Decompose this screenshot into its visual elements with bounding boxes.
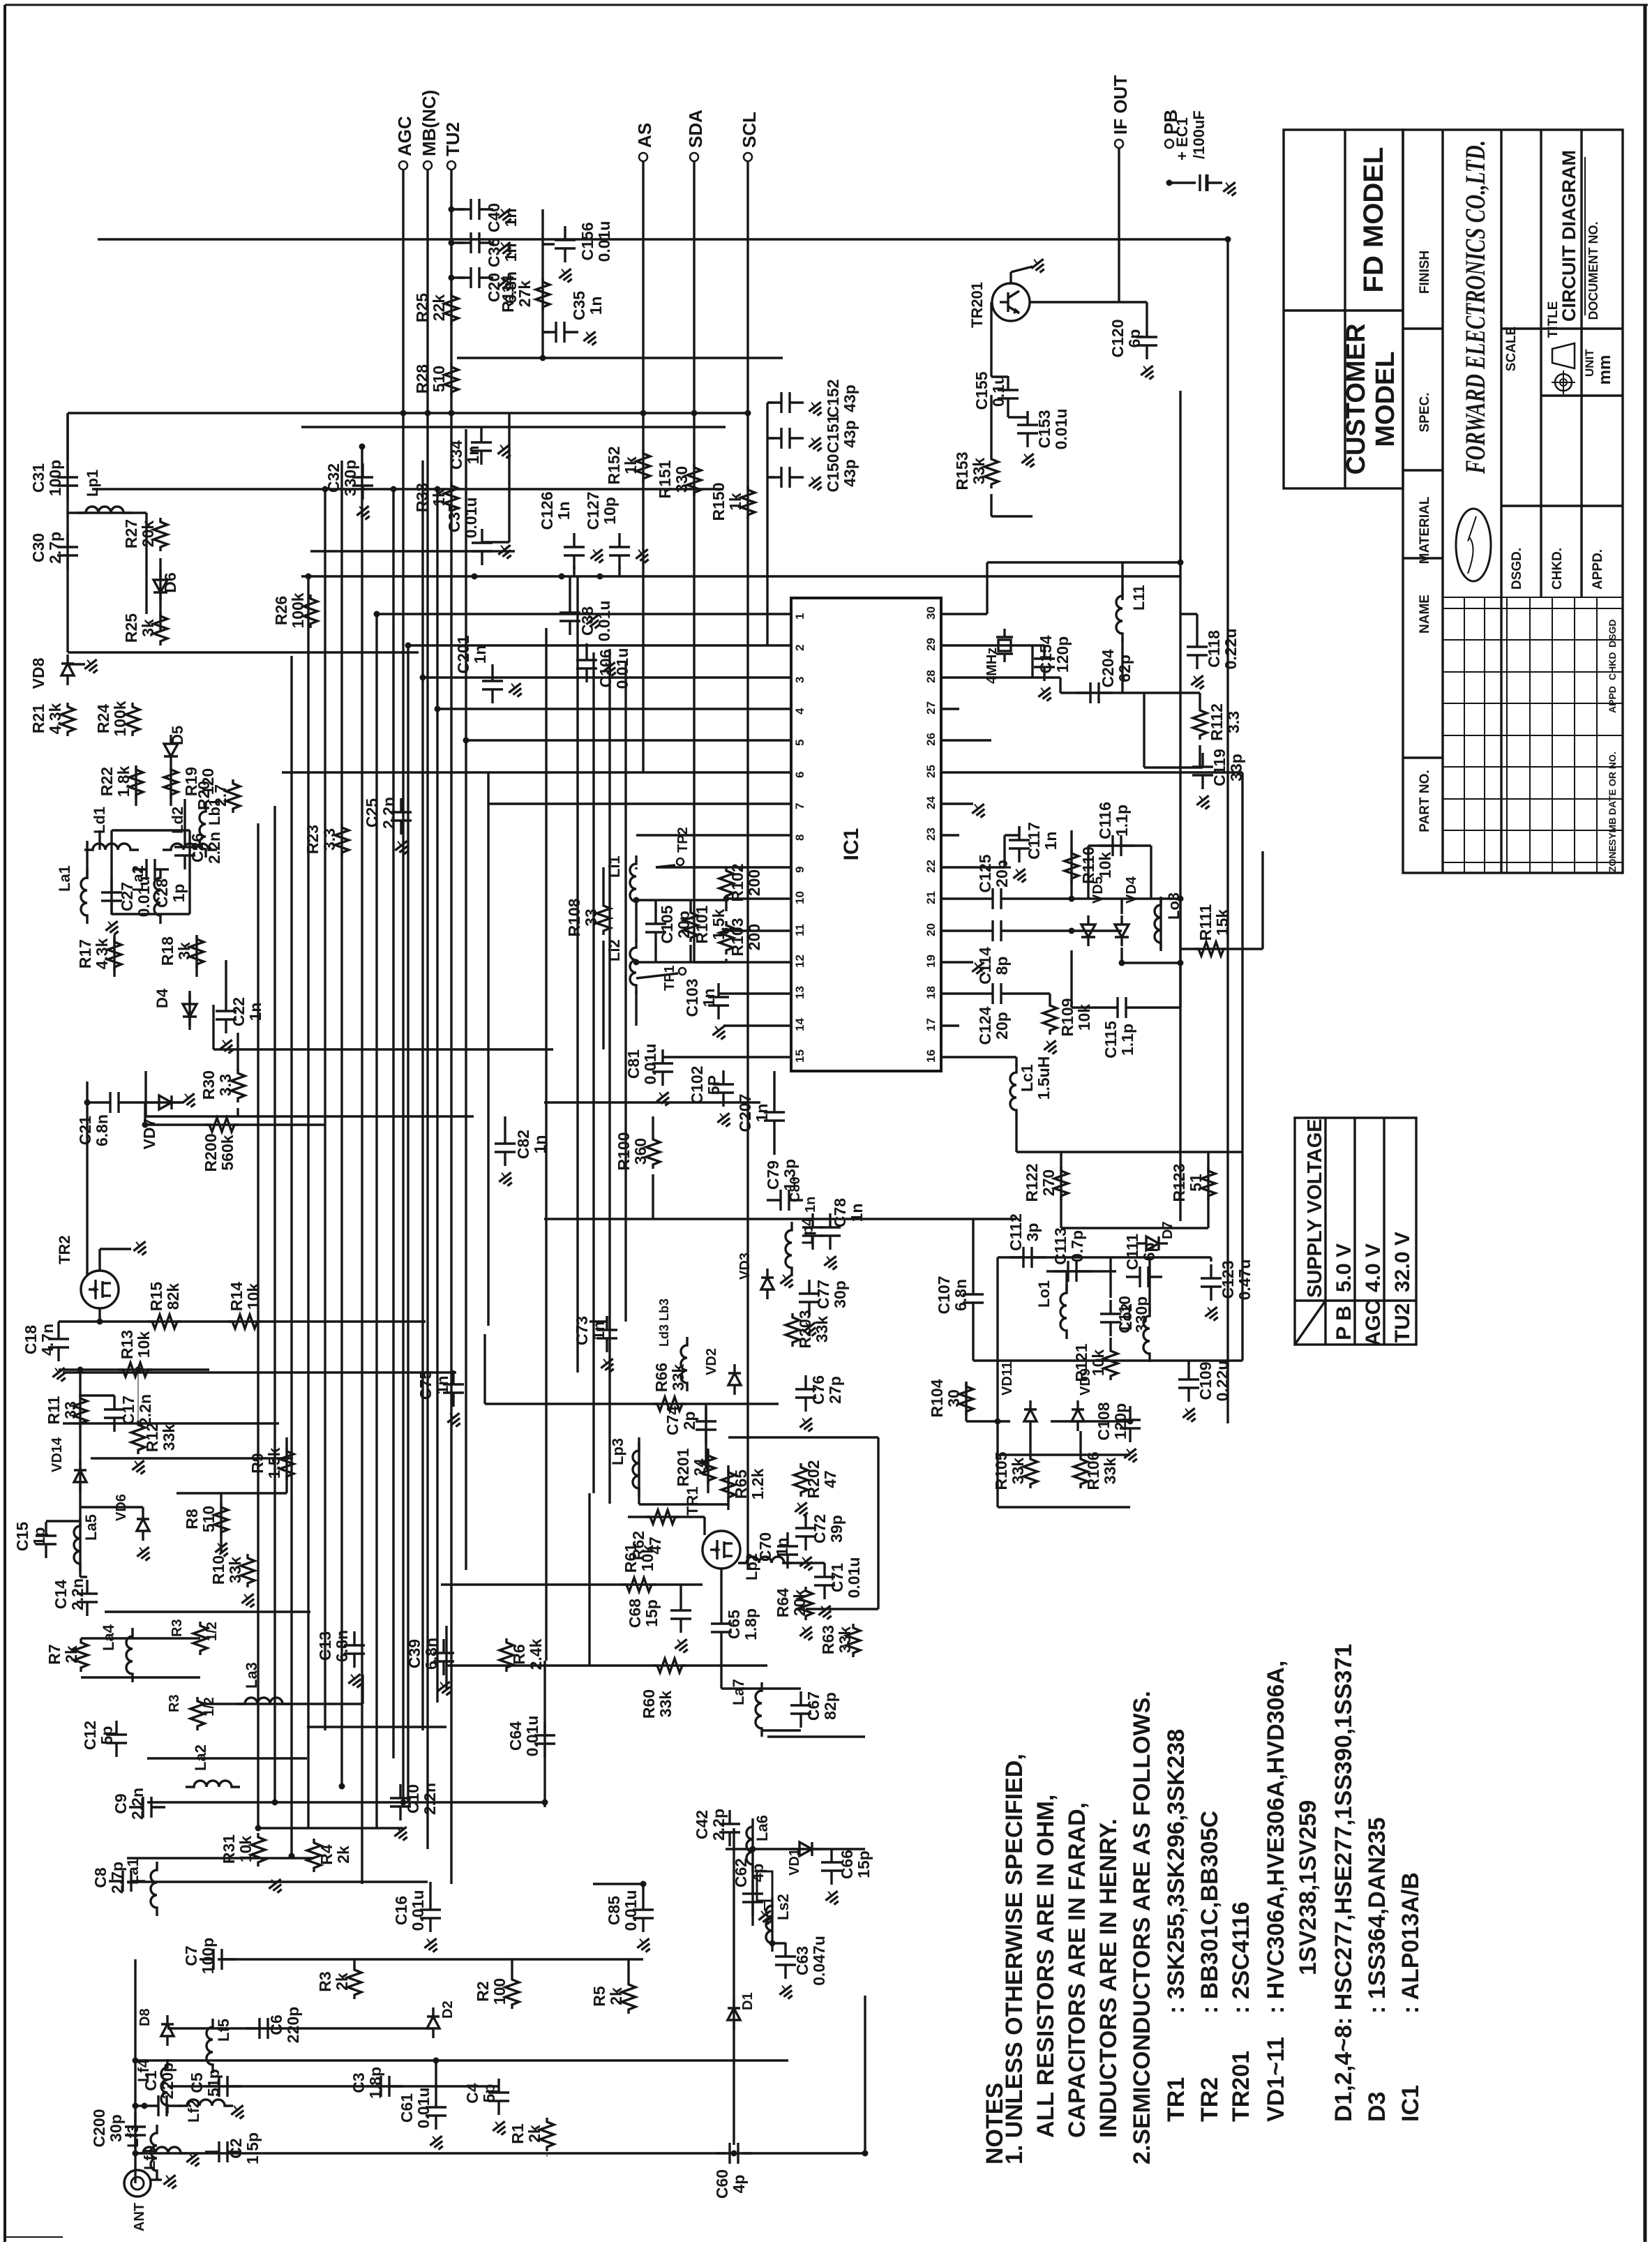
resistor R153 <box>984 455 998 488</box>
svg-text:TR2: TR2 <box>56 1235 73 1264</box>
svg-text:1.2k: 1.2k <box>749 1468 767 1499</box>
svg-text:R3: R3 <box>167 1694 182 1712</box>
inductor Lf1 <box>135 2147 189 2153</box>
wire <box>66 413 68 652</box>
wire <box>465 429 467 1570</box>
svg-text:0.01u: 0.01u <box>523 1716 541 1757</box>
capacitor C5 <box>205 2085 219 2087</box>
svg-text:C111: C111 <box>1123 1234 1141 1271</box>
resistor R3b 1/2 <box>190 1697 204 1730</box>
wire <box>146 1115 474 1117</box>
wire <box>483 1334 486 1404</box>
resistor R21 <box>61 703 75 736</box>
resistor R102 <box>719 867 733 900</box>
svg-text:27k: 27k <box>516 280 534 308</box>
svg-text:Ld2: Ld2 <box>169 807 186 834</box>
svg-text:R6: R6 <box>510 1644 528 1664</box>
wire <box>1143 693 1145 768</box>
wire <box>959 866 1005 868</box>
resistor R10 <box>241 1554 255 1587</box>
svg-text:C10: C10 <box>404 1784 422 1813</box>
svg-text:ZONE: ZONE <box>1607 845 1618 872</box>
wire <box>1029 1431 1031 1455</box>
wire <box>1226 239 1229 1423</box>
wire <box>628 1516 705 1518</box>
svg-text:1.5k: 1.5k <box>265 1447 283 1479</box>
svg-text:R122: R122 <box>1023 1164 1041 1202</box>
resistor R5 <box>622 1980 636 2014</box>
resistor R15 <box>148 1315 181 1329</box>
svg-text:20p: 20p <box>993 860 1011 888</box>
wire <box>543 1661 546 1807</box>
diode VD9 <box>1076 1400 1079 1409</box>
resistor R6 <box>500 1638 513 1672</box>
svg-text:2.SEMICONDUCTORS ARE AS FOLLOW: 2.SEMICONDUCTORS ARE AS FOLLOWS. <box>1129 1691 1155 2164</box>
svg-text:R108: R108 <box>565 898 583 936</box>
svg-text:33k: 33k <box>1009 1458 1027 1485</box>
svg-text:100k: 100k <box>289 592 307 628</box>
svg-text:39p: 39p <box>827 1515 846 1543</box>
svg-text:330: 330 <box>673 466 691 493</box>
svg-text:27p: 27p <box>826 1376 844 1404</box>
svg-text:30: 30 <box>924 606 938 620</box>
svg-text:R111: R111 <box>1196 904 1215 941</box>
wire <box>79 1370 81 1570</box>
terminal PB <box>1165 140 1173 148</box>
wire <box>91 1457 293 1459</box>
inductor La3 <box>236 1698 291 1704</box>
capacitor C3 <box>367 2085 381 2087</box>
svg-text:R17: R17 <box>76 939 94 968</box>
wire <box>145 1123 325 1125</box>
capacitor C118 <box>1196 633 1198 647</box>
resonator <box>757 1871 772 1901</box>
svg-text:C77: C77 <box>814 1280 832 1309</box>
svg-text:C14: C14 <box>52 1580 70 1609</box>
IC1 pin 4 stub <box>773 708 791 710</box>
capacitor C13 <box>353 1631 355 1645</box>
svg-text:2k: 2k <box>525 2125 543 2143</box>
svg-text:C6: C6 <box>267 2014 285 2035</box>
wire <box>110 869 112 914</box>
svg-text:1.1p: 1.1p <box>1113 805 1131 837</box>
svg-text:VD11: VD11 <box>1000 1361 1015 1396</box>
svg-text:4MHz: 4MHz <box>984 648 1000 684</box>
svg-text:R201: R201 <box>674 1448 692 1486</box>
svg-text:32.0 V: 32.0 V <box>1391 1232 1414 1292</box>
terminal AS <box>639 153 647 161</box>
svg-text:1.8p: 1.8p <box>742 1608 760 1640</box>
svg-text:ANT: ANT <box>132 2203 147 2231</box>
resistor R4 <box>307 1839 321 1872</box>
capacitor C85 <box>642 1896 644 1910</box>
wire <box>87 1101 96 1103</box>
capacitor C14 <box>86 1580 88 1594</box>
svg-text:1n: 1n <box>590 1322 608 1340</box>
svg-text:14: 14 <box>793 1018 806 1031</box>
svg-text:1n: 1n <box>587 297 605 315</box>
diode VD14 <box>79 1461 81 1470</box>
capacitor C67 <box>799 1691 802 1705</box>
inductor La1 <box>151 1862 157 1916</box>
svg-text:0.01u: 0.01u <box>613 648 631 689</box>
wire <box>679 1585 682 1596</box>
svg-text:TU2: TU2 <box>1391 1303 1414 1343</box>
wire <box>877 1437 879 1609</box>
wire <box>720 1569 722 1610</box>
svg-text:CIRCUIT DIAGRAM: CIRCUIT DIAGRAM <box>1559 150 1579 322</box>
svg-text:24: 24 <box>691 1458 709 1476</box>
inductor Ls2 <box>766 1897 772 1952</box>
wire <box>110 830 112 869</box>
wire <box>145 1101 183 1103</box>
capacitor C28 <box>133 868 147 870</box>
capacitor C115 <box>1104 1006 1118 1008</box>
svg-text:SCALE: SCALE <box>1504 327 1519 371</box>
svg-text:C75: C75 <box>416 1370 435 1400</box>
IC1 pin 28 stub <box>941 676 959 678</box>
svg-text:3.3: 3.3 <box>1224 711 1242 733</box>
svg-text:VD14: VD14 <box>50 1437 65 1472</box>
wire <box>437 708 773 710</box>
capacitor C78 <box>829 1213 831 1227</box>
svg-text:C118: C118 <box>1205 630 1223 668</box>
IC1 pin 1 stub <box>773 613 791 615</box>
wire <box>998 1256 1211 1258</box>
capacitor C124 <box>979 992 993 994</box>
capacitor C37 <box>481 529 483 543</box>
wire <box>545 628 547 1661</box>
svg-text:SPEC.: SPEC. <box>1418 392 1432 432</box>
wire <box>423 676 773 678</box>
svg-text:R114: R114 <box>499 275 517 313</box>
capacitor C116 <box>1099 844 1113 846</box>
svg-text:5P: 5P <box>705 1075 723 1095</box>
svg-text:D7: D7 <box>1160 1221 1176 1239</box>
svg-text:: 1SS364,DAN235: : 1SS364,DAN235 <box>1364 1817 1390 2014</box>
svg-text:4p: 4p <box>730 2175 748 2194</box>
svg-text:C79: C79 <box>764 1160 782 1190</box>
wire <box>177 1492 287 1494</box>
crystal X1 4MHz <box>1003 629 1005 637</box>
svg-text:R5: R5 <box>590 1986 608 2007</box>
svg-text:2.2n: 2.2n <box>128 1788 147 1820</box>
svg-text:33k: 33k <box>1101 1458 1119 1485</box>
wire <box>1144 766 1203 768</box>
capacitor C64 <box>543 1721 546 1735</box>
wire <box>864 1996 866 2153</box>
diode VD4 <box>1120 915 1122 925</box>
svg-text:La2: La2 <box>192 1744 209 1771</box>
svg-text:2p: 2p <box>680 1412 698 1430</box>
capacitor C16 <box>429 1896 431 1910</box>
svg-text:C17: C17 <box>119 1396 137 1425</box>
diode D8 <box>166 2015 168 2024</box>
IC1 pin 19 stub <box>941 961 959 963</box>
capacitor C2 <box>205 2150 219 2153</box>
svg-text:C115: C115 <box>1102 1021 1120 1059</box>
capacitor C114 <box>979 929 993 932</box>
IC1 pin 6 stub <box>773 771 791 773</box>
wire <box>1150 846 1152 899</box>
svg-text:C85: C85 <box>605 1896 623 1925</box>
svg-text:20p: 20p <box>993 1012 1011 1040</box>
svg-text:C34: C34 <box>447 440 465 470</box>
wire <box>290 656 292 1856</box>
svg-text:C124: C124 <box>976 1006 994 1045</box>
svg-text:1n: 1n <box>531 1135 549 1154</box>
wire <box>959 1056 1016 1058</box>
svg-text:Lo1: Lo1 <box>1035 1280 1053 1308</box>
svg-text:C154: C154 <box>1037 635 1055 673</box>
capacitor C204 <box>1076 691 1090 694</box>
wire <box>1087 846 1089 899</box>
wire <box>965 1382 967 1421</box>
wire <box>167 2085 499 2087</box>
svg-text:R62: R62 <box>629 1531 647 1560</box>
wire <box>92 488 723 490</box>
wire <box>426 170 428 1849</box>
capacitor C107 <box>972 1280 974 1294</box>
svg-text:C150: C150 <box>824 454 842 493</box>
wire <box>188 869 190 914</box>
wire box <box>508 413 510 542</box>
wire <box>733 1828 735 2145</box>
inductor Lf3 <box>151 2125 157 2179</box>
svg-text:100p: 100p <box>46 460 64 496</box>
wire <box>771 1905 773 1947</box>
resistor R109 <box>1043 1001 1057 1035</box>
svg-text:VD4: VD4 <box>1124 876 1139 904</box>
svg-text:C4: C4 <box>463 2083 481 2104</box>
svg-text:AGC: AGC <box>1362 1300 1385 1347</box>
transistor TR201 <box>992 283 1030 321</box>
resistor R202 <box>794 1463 808 1497</box>
svg-text:C37: C37 <box>445 503 463 532</box>
capacitor C82 <box>504 1130 506 1144</box>
wire <box>98 830 100 850</box>
svg-text:APPD: APPD <box>1607 686 1618 713</box>
resistor R14 <box>228 1315 262 1329</box>
svg-text:C1: C1 <box>142 2070 160 2091</box>
svg-text:51: 51 <box>1187 1174 1205 1192</box>
capacitor C81 <box>661 1049 663 1063</box>
svg-text:R15: R15 <box>147 1282 165 1311</box>
svg-text:mm: mm <box>1595 355 1614 385</box>
svg-text:MB(NC): MB(NC) <box>419 90 440 156</box>
svg-text:D1: D1 <box>740 1992 756 2010</box>
inductor Ld1 <box>84 844 139 850</box>
wire <box>188 991 190 1030</box>
wire <box>1061 1227 1208 1229</box>
capacitor C22 <box>225 997 227 1011</box>
title block: main box <box>1403 130 1623 873</box>
capacitor C207 <box>773 1098 775 1112</box>
wire <box>212 1005 214 1049</box>
inductor Ld2 <box>163 844 217 850</box>
svg-text:2: 2 <box>793 645 806 651</box>
svg-text:5p: 5p <box>98 1726 116 1745</box>
capacitor C17 <box>113 1396 115 1409</box>
capacitor C70 <box>786 1532 788 1546</box>
svg-text:C39: C39 <box>405 1639 423 1668</box>
IC1 pin 24 stub <box>941 802 959 805</box>
svg-text:4: 4 <box>793 708 806 715</box>
wire <box>986 562 988 614</box>
svg-text:C3: C3 <box>350 2072 368 2093</box>
svg-text:VD1: VD1 <box>787 1848 802 1876</box>
forward oval logo <box>1456 509 1491 581</box>
IC1 pin 8 stub <box>773 834 791 836</box>
wire <box>588 1493 590 1666</box>
capacitor C39 <box>442 1639 444 1653</box>
ground <box>1009 272 1012 283</box>
capacitor C113 <box>1054 1270 1068 1272</box>
ground <box>130 1237 151 1257</box>
svg-text:33k: 33k <box>970 458 988 485</box>
svg-text:3.3: 3.3 <box>216 1074 234 1096</box>
IC1 pin 9 stub <box>773 866 791 868</box>
wire <box>544 1218 1016 1220</box>
svg-text:R104: R104 <box>928 1379 946 1417</box>
svg-text:TU2: TU2 <box>442 122 463 156</box>
svg-text:PART NO.: PART NO. <box>1418 770 1432 832</box>
svg-text:4.7n: 4.7n <box>38 1324 57 1356</box>
diode D2 <box>432 2007 434 2017</box>
svg-text:6p: 6p <box>1125 329 1143 348</box>
capacitor C10 <box>399 1784 401 1798</box>
capacitor C38 <box>569 599 571 613</box>
svg-text:Lp1: Lp1 <box>84 470 101 497</box>
svg-text:1n: 1n <box>471 645 489 664</box>
svg-text:3p: 3p <box>1023 1223 1042 1242</box>
svg-text:0.22u: 0.22u <box>1222 629 1240 670</box>
svg-text:R22: R22 <box>98 767 116 796</box>
wire <box>445 1626 447 1689</box>
svg-text:TP2: TP2 <box>675 827 691 853</box>
wire <box>1120 948 1122 963</box>
wire <box>408 644 773 646</box>
wire <box>773 1134 775 1155</box>
svg-text:R30: R30 <box>200 1070 218 1100</box>
resistor R3 <box>347 1966 361 1999</box>
svg-text:1n: 1n <box>555 502 573 521</box>
svg-text:FD MODEL: FD MODEL <box>1358 147 1389 293</box>
IC1 pin 12 stub <box>773 961 791 963</box>
IC1 pin 22 stub <box>941 866 959 868</box>
resistor R30 <box>231 1069 245 1102</box>
capacitor C127 <box>618 533 620 547</box>
inductor La7 <box>756 1682 762 1737</box>
svg-text:SYMB: SYMB <box>1607 818 1618 846</box>
resistor R24 <box>126 703 140 736</box>
svg-text:28: 28 <box>924 670 938 683</box>
svg-text:1.1p: 1.1p <box>1118 1024 1136 1056</box>
svg-text:560k: 560k <box>218 1135 236 1170</box>
resistor R1 <box>540 2118 554 2151</box>
capacitor C27 <box>110 878 112 892</box>
svg-text:R8: R8 <box>183 1509 201 1529</box>
svg-text:1/2: 1/2 <box>202 1697 217 1716</box>
capacitor C32 <box>361 463 363 477</box>
resistor R105 <box>1023 1455 1037 1488</box>
wire <box>273 806 276 1802</box>
svg-text:C105: C105 <box>658 905 676 943</box>
svg-text:C68: C68 <box>626 1599 644 1628</box>
wire <box>236 1033 239 1071</box>
capacitor C25 <box>400 798 402 812</box>
wire <box>407 645 409 1802</box>
svg-text:C2: C2 <box>227 2138 245 2158</box>
svg-text:0.01u: 0.01u <box>462 498 480 539</box>
svg-text:IF OUT: IF OUT <box>1110 75 1131 135</box>
wire <box>167 2027 433 2029</box>
wire <box>959 739 991 741</box>
svg-text:0.01u: 0.01u <box>595 601 613 642</box>
wire <box>218 1958 643 1960</box>
svg-text:29: 29 <box>924 638 938 651</box>
diode D5 <box>170 735 172 744</box>
IC1 pin 5 stub <box>773 739 791 741</box>
svg-text:10k: 10k <box>135 1331 153 1359</box>
diode VD7 <box>150 1101 159 1103</box>
svg-text:C119: C119 <box>1210 749 1229 786</box>
resistor R200 <box>205 1118 239 1132</box>
svg-text:33k: 33k <box>836 1626 854 1654</box>
svg-text:1n: 1n <box>502 209 520 227</box>
wire <box>693 161 695 962</box>
svg-text:R11: R11 <box>45 1396 63 1424</box>
svg-text:10: 10 <box>793 891 806 904</box>
right rows cell lines <box>1501 327 1623 329</box>
capacitor C80 <box>811 1213 813 1227</box>
resistor R203 <box>786 1313 799 1347</box>
wire <box>972 1219 974 1280</box>
resistor R13 <box>119 1363 152 1377</box>
svg-text:C36: C36 <box>485 238 503 267</box>
capacitor C156 <box>564 226 566 240</box>
wire <box>487 804 489 1326</box>
wire <box>1060 1152 1062 1228</box>
wire <box>959 644 1032 646</box>
inductor La1b <box>81 869 87 924</box>
inductor Ld3 <box>681 1337 687 1391</box>
wire <box>98 238 1228 240</box>
svg-text:8: 8 <box>793 835 806 841</box>
wire <box>1015 992 1050 994</box>
resistor R111 <box>1194 942 1228 956</box>
svg-text:17: 17 <box>924 1018 938 1031</box>
resistor R31 <box>251 1833 265 1867</box>
resistor R201 <box>701 1451 715 1485</box>
resistor R150 <box>741 486 755 519</box>
svg-text:33k: 33k <box>656 1691 675 1718</box>
svg-text:0.7p: 0.7p <box>1068 1230 1086 1262</box>
resistor R22 <box>129 765 143 799</box>
capacitor C105 <box>654 910 656 924</box>
wire <box>1210 1257 1212 1262</box>
svg-text:D4: D4 <box>153 988 171 1008</box>
svg-text:1.8p: 1.8p <box>366 2067 384 2099</box>
svg-text:La6: La6 <box>753 1815 771 1841</box>
wire <box>487 772 489 804</box>
svg-text:TP1: TP1 <box>662 965 677 991</box>
IC1 pin 13 stub <box>773 992 791 994</box>
resistor R23 <box>335 823 349 857</box>
svg-text:C151: C151 <box>824 414 842 453</box>
wire <box>544 1101 760 1103</box>
svg-text:D5: D5 <box>169 726 186 745</box>
